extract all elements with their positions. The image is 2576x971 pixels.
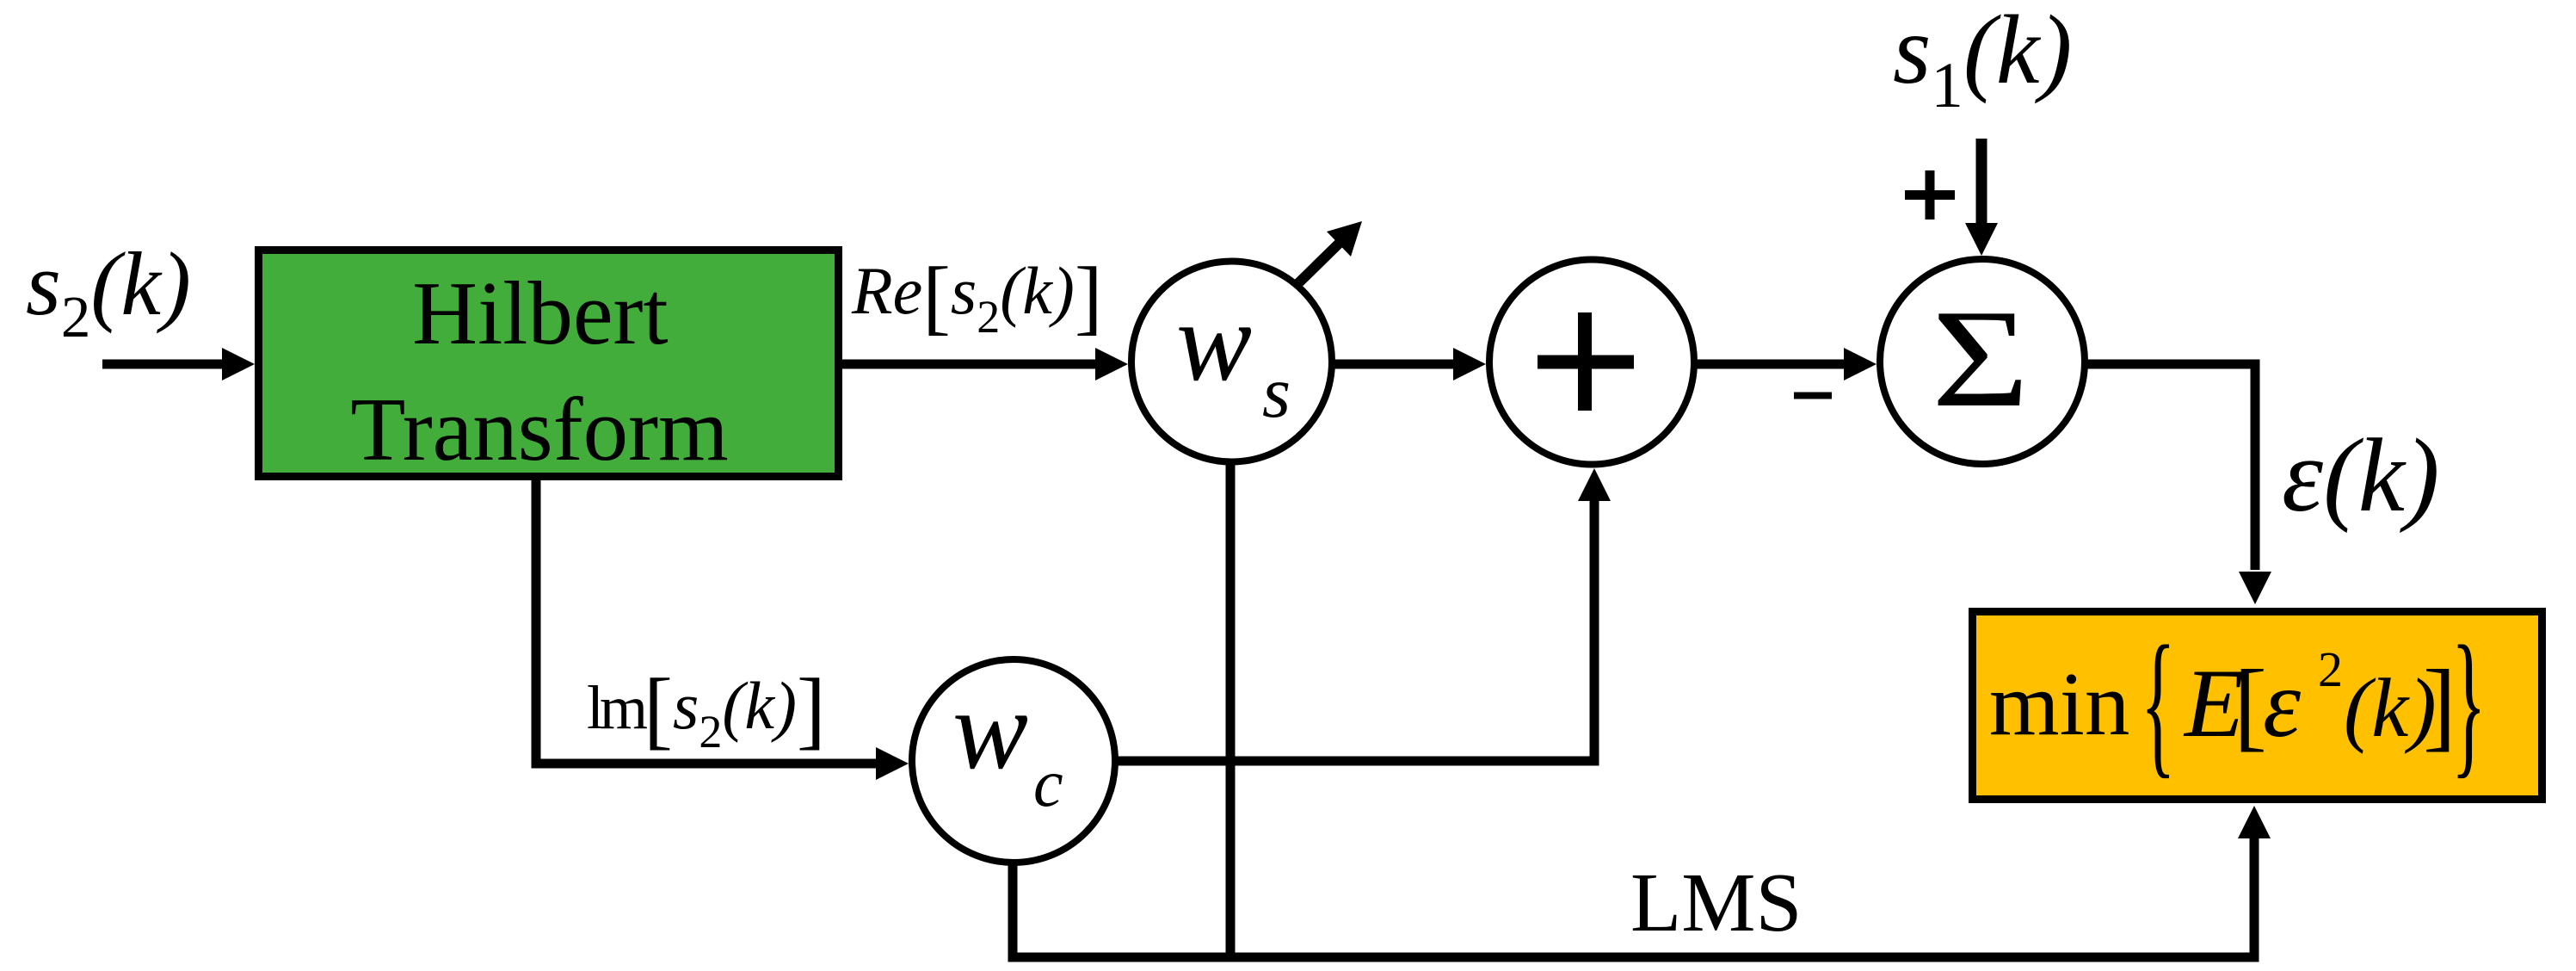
wire s1 down into sigma	[1965, 139, 1998, 256]
svg-text:ε: ε	[2263, 651, 2302, 758]
svg-text:{: {	[2141, 612, 2176, 792]
block Hilbert Transform	[259, 250, 839, 480]
summer sigma circle	[1880, 259, 2085, 464]
svg-text:s1(k): s1(k)	[1893, 0, 2072, 121]
wire box to ws	[842, 348, 1128, 380]
svg-text:s2(k): s2(k)	[26, 233, 191, 349]
svg-text:min: min	[1989, 653, 2129, 754]
svg-text:w: w	[1176, 278, 1252, 405]
wire wc output to adder bottom	[1115, 468, 1611, 761]
svg-text:}: }	[2451, 612, 2487, 792]
node minus sign	[1794, 393, 1832, 399]
svg-text:2: 2	[2318, 641, 2343, 697]
wire box bottom to wc	[536, 480, 909, 780]
adder plus circle	[1489, 260, 1694, 465]
multiplier ws	[1131, 262, 1332, 462]
wire s2 input arrow	[102, 348, 255, 380]
svg-text:LMS: LMS	[1630, 857, 1802, 949]
wire ws down to LMS bus	[1226, 461, 1236, 957]
node plus sign at sigma input	[1905, 170, 1955, 220]
wire wc down, LMS bus, up into min box	[1013, 806, 2271, 957]
wire ws to adder	[1332, 348, 1486, 380]
svg-text:w: w	[952, 666, 1028, 793]
svg-text:s: s	[1262, 352, 1291, 433]
block min E eps2	[1973, 612, 2542, 800]
svg-text:ε(k): ε(k)	[2282, 417, 2439, 534]
svg-text:Σ: Σ	[1932, 281, 2030, 436]
svg-text:Transform: Transform	[350, 379, 728, 479]
svg-text:c: c	[1033, 745, 1063, 820]
wire sigma to min box	[2086, 364, 2271, 604]
wire adjustable arrow on ws	[1298, 221, 1362, 283]
svg-text:Hilbert: Hilbert	[412, 263, 668, 363]
wire adder to sigma	[1694, 348, 1877, 380]
multiplier wc	[912, 659, 1115, 863]
